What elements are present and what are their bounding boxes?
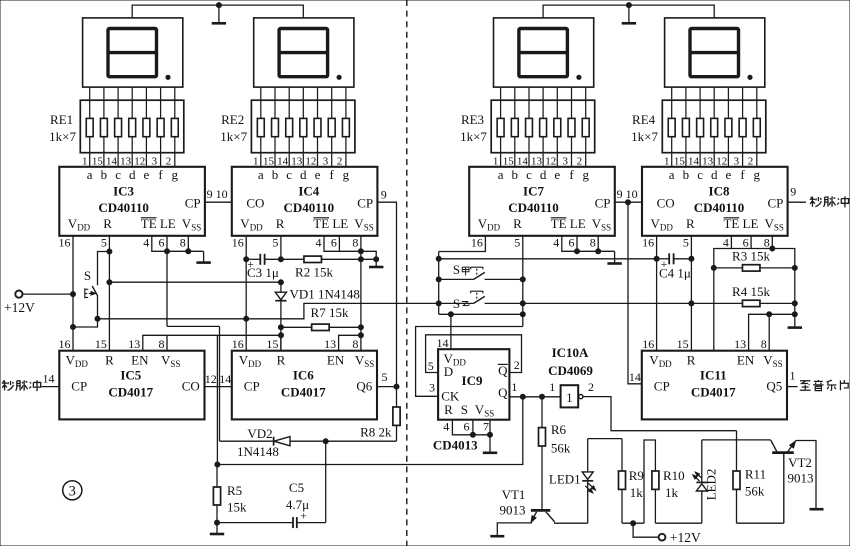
svg-text:+12V: +12V: [4, 300, 35, 315]
svg-text:b: b: [101, 167, 108, 182]
svg-text:3: 3: [323, 155, 329, 167]
svg-text:Q6: Q6: [356, 379, 372, 394]
ground (VT2): [810, 508, 824, 511]
svg-text:Q: Q: [498, 363, 508, 378]
wire: IC11 Q5 output pin 1: [787, 386, 798, 388]
wires: display DS3 segment pins down to IC: [501, 87, 586, 167]
svg-text:1: 1: [253, 155, 259, 167]
resistor R2 15k: [304, 256, 322, 262]
transistor VT2 9013: [772, 451, 794, 454]
svg-text:16: 16: [642, 235, 654, 249]
svg-text:IC4: IC4: [298, 183, 319, 198]
svg-text:2: 2: [514, 358, 520, 372]
wire: R10/LED2 bottom bar: [655, 522, 701, 524]
svg-text:RE2: RE2: [221, 112, 244, 127]
svg-text:13: 13: [734, 337, 746, 351]
svg-text:LED2: LED2: [704, 469, 719, 501]
+12V bottom terminal: [659, 534, 666, 541]
svg-text:c: c: [526, 167, 532, 182]
svg-text:8: 8: [590, 235, 596, 249]
svg-text:CD4017: CD4017: [691, 385, 736, 400]
junction +12V bottom: [631, 521, 636, 526]
svg-text:f: f: [158, 167, 163, 182]
svg-text:CD4017: CD4017: [108, 385, 153, 400]
svg-text:1: 1: [511, 380, 517, 394]
wire: VD2 node down to C5: [325, 441, 327, 522]
svg-text:R: R: [276, 216, 285, 231]
svg-text:3: 3: [429, 381, 435, 395]
svg-text:12: 12: [134, 155, 145, 167]
IC6 CD4017 counter: [232, 337, 377, 420]
LED1: [587, 439, 589, 472]
resistor network RE2 1k x7: [251, 100, 355, 153]
svg-text:1k×7: 1k×7: [460, 129, 487, 144]
junction +12V on VDD rail: [71, 292, 76, 297]
svg-text:12: 12: [716, 155, 727, 167]
wire: line A ground to V2: [167, 325, 220, 327]
svg-text:g: g: [343, 167, 350, 182]
svg-text:S: S: [453, 296, 460, 311]
IC9 CD4013 flip-flop: [438, 349, 509, 420]
svg-text:2: 2: [577, 155, 583, 167]
svg-text:15: 15: [92, 155, 104, 167]
wire: IC9 VDD pin 14: [450, 314, 452, 349]
wire: switch S bottom contact: [97, 296, 99, 319]
junction switch bottom: [95, 316, 100, 321]
wire: CK loop: [416, 327, 523, 397]
wire: IC8 pin5 down to IC11 pin15: [690, 259, 692, 351]
diode VD1 1N4148: [280, 282, 282, 292]
junctions IC7 pins 6,8: [575, 249, 580, 254]
IC4 CD40110 counter: [232, 167, 378, 250]
wire: IC5 CO pin12 to IC6 CP pin14: [205, 386, 232, 388]
wire: +12V to VDD rail: [23, 293, 74, 295]
svg-text:f: f: [330, 167, 335, 182]
svg-text:C4 1μ: C4 1μ: [659, 266, 691, 281]
svg-text:e: e: [554, 167, 560, 182]
svg-text:1k: 1k: [665, 485, 679, 500]
svg-text:S: S: [461, 402, 468, 417]
ground (IC3 TE/LE/VSS): [203, 251, 205, 262]
7-segment display DS1: [83, 18, 183, 87]
svg-text:9013: 9013: [788, 471, 814, 486]
svg-text:6: 6: [159, 235, 165, 249]
wire: VDD rail to IC8 pin16 and C4: [439, 258, 657, 260]
wire: inverter output: [583, 397, 737, 431]
svg-text:4: 4: [443, 420, 449, 434]
svg-text:8: 8: [761, 337, 767, 351]
resistor R8 2k: [396, 387, 398, 408]
svg-text:CO: CO: [182, 379, 200, 394]
wire: switched +12V rail to right half: [98, 303, 474, 318]
svg-text:9: 9: [381, 188, 387, 202]
junctions C4 line: [654, 256, 659, 261]
resistor network RE1 1k x7: [80, 100, 184, 153]
svg-text:CD4017: CD4017: [281, 385, 326, 400]
svg-text:3: 3: [563, 155, 569, 167]
svg-text:+12V: +12V: [670, 530, 701, 545]
ground (IC9): [489, 435, 491, 453]
wires: IC8 bottom pin stubs: [656, 236, 658, 259]
pin numbers row for RE1 outputs: [82, 155, 171, 167]
junction S jia right: [520, 277, 525, 282]
svg-text:3: 3: [69, 484, 76, 500]
svg-text:R6: R6: [551, 422, 567, 437]
IC11 CD4017 counter: [642, 337, 787, 420]
svg-text:LE: LE: [332, 216, 348, 231]
resistor network RE4 1k x7: [662, 100, 766, 153]
svg-text:10: 10: [216, 187, 228, 201]
junctions R7 ends: [278, 325, 283, 330]
svg-text:R: R: [277, 352, 286, 367]
LED2: [701, 491, 703, 523]
svg-text:5: 5: [428, 359, 434, 373]
label: seconds pulse input (left): [2, 380, 14, 390]
resistor R3 15k: [714, 267, 742, 269]
wire: +12V jog to IC9 VDD: [439, 313, 523, 315]
svg-text:VD2: VD2: [247, 426, 272, 441]
svg-text:b: b: [683, 167, 690, 182]
svg-text:6: 6: [743, 235, 749, 249]
wires: display DS1 segment pins down to IC: [90, 87, 175, 167]
svg-text:CD40110: CD40110: [508, 200, 559, 215]
svg-text:13: 13: [120, 155, 132, 167]
junctions on C3 line: [244, 257, 249, 262]
svg-text:2: 2: [337, 155, 343, 167]
svg-text:9: 9: [207, 187, 213, 201]
svg-text:56k: 56k: [745, 484, 765, 499]
IC10A CD4069 inverter: [561, 385, 579, 407]
wire: VD2 anode to R8 bottom: [290, 440, 397, 442]
ground (IC7 TE/LE/VSS): [614, 251, 616, 263]
junction VDD rail / switch return: [71, 325, 76, 330]
svg-text:5: 5: [101, 235, 107, 249]
junction top right: [626, 3, 631, 8]
IC8 CD40110 counter: [642, 167, 788, 250]
svg-text:12: 12: [205, 372, 217, 386]
svg-text:RE3: RE3: [461, 112, 484, 127]
svg-text:d: d: [711, 167, 718, 182]
svg-text:c: c: [286, 167, 292, 182]
svg-text:14: 14: [629, 370, 641, 384]
wire: LED1/R9 top bar: [588, 438, 622, 440]
svg-text:a: a: [258, 167, 264, 182]
svg-text:14: 14: [437, 336, 449, 350]
svg-text:1: 1: [566, 390, 573, 405]
svg-text:R7 15k: R7 15k: [311, 305, 349, 320]
svg-text:16: 16: [232, 235, 244, 249]
wires: IC9 bottom pins 4,6,7 to ground: [452, 420, 490, 435]
svg-text:a: a: [498, 167, 504, 182]
wire: IC6 pin15 R stub: [280, 335, 282, 350]
wire: right ground vertical: [794, 268, 796, 314]
svg-text:R8 2k: R8 2k: [360, 424, 392, 439]
junctions R4 ends: [689, 301, 694, 306]
svg-text:b: b: [272, 167, 279, 182]
svg-text:C3 1μ: C3 1μ: [247, 265, 279, 280]
switch S-yi (set hours): [474, 296, 485, 303]
junction pin5/switch bracket: [107, 249, 112, 254]
svg-text:5: 5: [514, 235, 520, 249]
junction IC6 EN bracket: [358, 333, 363, 338]
junctions R line ends: [107, 280, 112, 285]
svg-text:13: 13: [324, 337, 336, 351]
svg-text:16: 16: [471, 235, 483, 249]
svg-text:6: 6: [464, 420, 470, 434]
junctions S switch left terminals: [436, 277, 441, 282]
svg-text:CP: CP: [767, 196, 783, 211]
wire: VT1 collector to LED1: [555, 521, 588, 524]
svg-text:14: 14: [517, 155, 529, 167]
svg-text:IC5: IC5: [120, 368, 141, 383]
wire: IC8 4-6-8 line: [714, 249, 795, 268]
svg-text:IC6: IC6: [293, 368, 314, 383]
svg-text:14: 14: [277, 155, 289, 167]
svg-text:IC8: IC8: [709, 183, 730, 198]
svg-text:15: 15: [266, 337, 278, 351]
wires: display DS4 segment pins down to IC: [672, 87, 757, 167]
svg-text:R: R: [686, 216, 695, 231]
svg-text:CD40110: CD40110: [284, 200, 335, 215]
svg-text:CO: CO: [246, 196, 264, 211]
svg-text:9: 9: [617, 187, 623, 201]
svg-text:LE: LE: [570, 216, 586, 231]
svg-text:CP: CP: [185, 196, 201, 211]
IC7 CD40110 counter: [469, 167, 615, 250]
wire: VT2 emitter to ground: [796, 441, 816, 509]
pin numbers row for RE2 outputs: [253, 155, 342, 167]
svg-text:R10: R10: [663, 468, 685, 483]
svg-text:15k: 15k: [227, 500, 247, 515]
junction top left: [216, 3, 221, 8]
wire: V2 vertical down to VD2 line: [219, 326, 221, 441]
transistor VT1 9013: [531, 509, 550, 512]
junction IC6 R / VD1 node: [279, 333, 284, 338]
svg-text:12: 12: [545, 155, 556, 167]
svg-text:e: e: [315, 167, 321, 182]
wire: IC4 pin16 down to IC6 pin16: [245, 259, 247, 350]
7-segment display DS4: [665, 18, 765, 87]
junction IC9 VDD branch: [448, 312, 453, 317]
ground (R5/C5): [216, 523, 218, 534]
svg-text:6: 6: [569, 235, 575, 249]
op IC3 CD40110 counter: [59, 167, 205, 250]
svg-text:c: c: [115, 167, 121, 182]
wire: switch bottom jog to VDD rail: [73, 319, 98, 327]
svg-text:CD40110: CD40110: [694, 200, 745, 215]
svg-text:RE4: RE4: [632, 112, 656, 127]
svg-text:CP: CP: [654, 379, 670, 394]
ground (top left): [218, 5, 220, 23]
svg-text:R: R: [105, 352, 114, 367]
junctions IC4 pins 8 and ground jog: [358, 249, 363, 254]
svg-text:15: 15: [263, 155, 275, 167]
wire: DS1/DS2 common anode top: [132, 5, 303, 18]
svg-text:3: 3: [734, 155, 740, 167]
7-segment display DS3: [494, 18, 594, 87]
svg-text:CP: CP: [595, 196, 611, 211]
svg-text:4.7μ: 4.7μ: [286, 497, 309, 512]
svg-text:EN: EN: [737, 352, 755, 367]
svg-text:13: 13: [702, 155, 714, 167]
wire: C5 line: [217, 522, 293, 524]
pin numbers row for RE4 outputs: [664, 155, 753, 167]
wire: timing rail R5 to IC9 Q: [217, 397, 522, 465]
svg-text:13: 13: [128, 337, 140, 351]
wire: DS3/DS4 common anode top: [543, 5, 714, 18]
figure number 3 circled: [63, 481, 82, 500]
wire: IC8 CP pin 9 output (seconds pulse): [788, 201, 806, 203]
wire: switch S top bracket from IC3 pin5: [98, 252, 110, 286]
svg-text:15: 15: [674, 155, 686, 167]
wire: IC7 CP to IC8 CO (pins 9,10): [615, 201, 642, 203]
svg-text:56k: 56k: [551, 441, 571, 456]
svg-text:CD40110: CD40110: [98, 200, 149, 215]
svg-text:CO: CO: [657, 196, 675, 211]
svg-text:8: 8: [180, 235, 186, 249]
svg-text:IC11: IC11: [700, 368, 727, 383]
wire: from CP junction down to IC11 CP pin 14: [628, 202, 642, 384]
junction Q6/R8/IC4-CP: [394, 384, 399, 389]
svg-text:IC10A: IC10A: [552, 345, 589, 360]
ground (IC11 EN/VSS, R3/R4): [794, 314, 796, 327]
wire: IC11 EN/VSS bracket to ground: [749, 314, 795, 350]
svg-text:f: f: [569, 167, 574, 182]
svg-text:5: 5: [272, 235, 278, 249]
svg-text:R9: R9: [629, 468, 644, 483]
svg-text:9: 9: [790, 185, 796, 199]
switch S (pushbutton): [92, 286, 98, 296]
wire: IC4 CP pin 9 down to IC6 Q6: [377, 202, 396, 386]
wire: IC8 pin16 down to IC11 pin16: [656, 259, 658, 351]
svg-text:LE: LE: [160, 216, 176, 231]
label: to music chip: [800, 381, 811, 390]
svg-text:15: 15: [503, 155, 515, 167]
svg-text:g: g: [172, 167, 179, 182]
svg-text:R11: R11: [745, 467, 766, 482]
svg-text:R4 15k: R4 15k: [732, 284, 770, 299]
junction IC8 pin8: [770, 246, 775, 251]
dashed separator line: [406, 0, 408, 546]
resistor R10 1k: [652, 471, 659, 489]
svg-text:e: e: [144, 167, 150, 182]
resistor R11 56k: [736, 431, 738, 471]
svg-text:15: 15: [677, 337, 689, 351]
svg-text:16: 16: [59, 337, 71, 351]
junction VDD rail right start: [436, 256, 441, 261]
svg-text:CP: CP: [244, 379, 260, 394]
svg-text:7: 7: [483, 420, 489, 434]
svg-text:8: 8: [352, 337, 358, 351]
junction VD2 node to C5: [323, 439, 328, 444]
switch S-jia (set minutes): [439, 278, 474, 280]
svg-text:4: 4: [553, 235, 559, 249]
wire: TE line down to IC11 top: [713, 268, 715, 351]
svg-text:R2 15k: R2 15k: [295, 264, 333, 279]
wire: IC6 EN/VSS bracket: [339, 335, 361, 350]
wire: IC4 pin8 ground vertical down to IC6 EN bracket: [360, 259, 362, 335]
svg-text:4: 4: [723, 235, 729, 249]
svg-text:CD4013: CD4013: [433, 437, 478, 452]
junction IC6 VDD tap: [244, 316, 249, 321]
svg-text:EN: EN: [327, 352, 345, 367]
wires: IC4 bottom pin stubs: [245, 236, 247, 259]
svg-text:CP: CP: [357, 196, 373, 211]
svg-text:2: 2: [748, 155, 754, 167]
svg-text:15: 15: [95, 337, 107, 351]
svg-text:IC9: IC9: [462, 373, 483, 388]
7-segment display DS2: [254, 18, 354, 87]
svg-text:VT2: VT2: [788, 455, 812, 470]
resistor network RE3 1k x7: [491, 100, 595, 153]
svg-text:f: f: [740, 167, 745, 182]
svg-text:R: R: [444, 402, 453, 417]
pin numbers row for RE3 outputs: [493, 155, 582, 167]
svg-text:R: R: [103, 216, 112, 231]
svg-text:14: 14: [688, 155, 700, 167]
svg-text:VT1: VT1: [502, 487, 526, 502]
svg-text:d: d: [129, 167, 136, 182]
svg-text:4: 4: [316, 235, 322, 249]
svg-text:6: 6: [331, 235, 337, 249]
capacitor C4 1uF: [657, 258, 670, 260]
resistor R7 15k: [281, 326, 312, 328]
capacitor C3 1uF: [259, 254, 261, 265]
svg-text:c: c: [697, 167, 703, 182]
svg-text:S: S: [453, 262, 460, 277]
svg-text:4: 4: [143, 235, 149, 249]
wire: IC7 pin5 R vertical with CK branch: [520, 312, 525, 317]
wire: IC5 EN/VSS bracket to IC6 R pin: [143, 335, 281, 350]
svg-text:5: 5: [382, 370, 388, 384]
svg-text:16: 16: [232, 337, 244, 351]
svg-text:a: a: [669, 167, 675, 182]
resistor R6 56k: [541, 397, 543, 428]
junction R5 bottom: [215, 520, 220, 525]
wire: VDD vertical x=438.7: [438, 252, 440, 315]
svg-text:LE: LE: [743, 216, 759, 231]
svg-text:3: 3: [152, 155, 158, 167]
wire: VT1 emitter to ground: [497, 522, 531, 535]
svg-text:R5: R5: [227, 483, 242, 498]
svg-text:1k×7: 1k×7: [220, 129, 247, 144]
svg-text:1: 1: [549, 380, 555, 394]
svg-text:14: 14: [106, 155, 118, 167]
svg-text:1k×7: 1k×7: [631, 129, 658, 144]
wire: VD2 line: [220, 440, 274, 442]
+12V input terminal: [15, 291, 22, 298]
wire: R9 bottom bar to +12V tap: [622, 522, 644, 524]
wire: R line IC3.pin5 - IC4.pin5: [109, 281, 281, 283]
ground (IC4 TE/LE/VSS): [375, 259, 377, 267]
svg-text:13: 13: [291, 155, 303, 167]
svg-text:1: 1: [493, 155, 499, 167]
svg-text:CP: CP: [71, 379, 87, 394]
wire: CP input IC5 pin 14: [42, 386, 60, 388]
wire: IC9 Q output: [509, 396, 560, 398]
junctions R3 ends: [711, 265, 716, 270]
svg-text:e: e: [726, 167, 732, 182]
svg-text:Q5: Q5: [766, 379, 782, 394]
wire: R11 bottom to VT2 base: [737, 522, 784, 524]
svg-text:CD4069: CD4069: [548, 363, 593, 378]
label: seconds pulse (miao mai chong) right: [810, 197, 822, 207]
junctions S yi right / R line: [520, 301, 525, 306]
svg-text:d: d: [300, 167, 307, 182]
svg-text:14: 14: [43, 371, 55, 385]
wire: +12V bottom feed: [633, 523, 659, 537]
wire: LED2 top to VT2 collector: [702, 439, 771, 441]
